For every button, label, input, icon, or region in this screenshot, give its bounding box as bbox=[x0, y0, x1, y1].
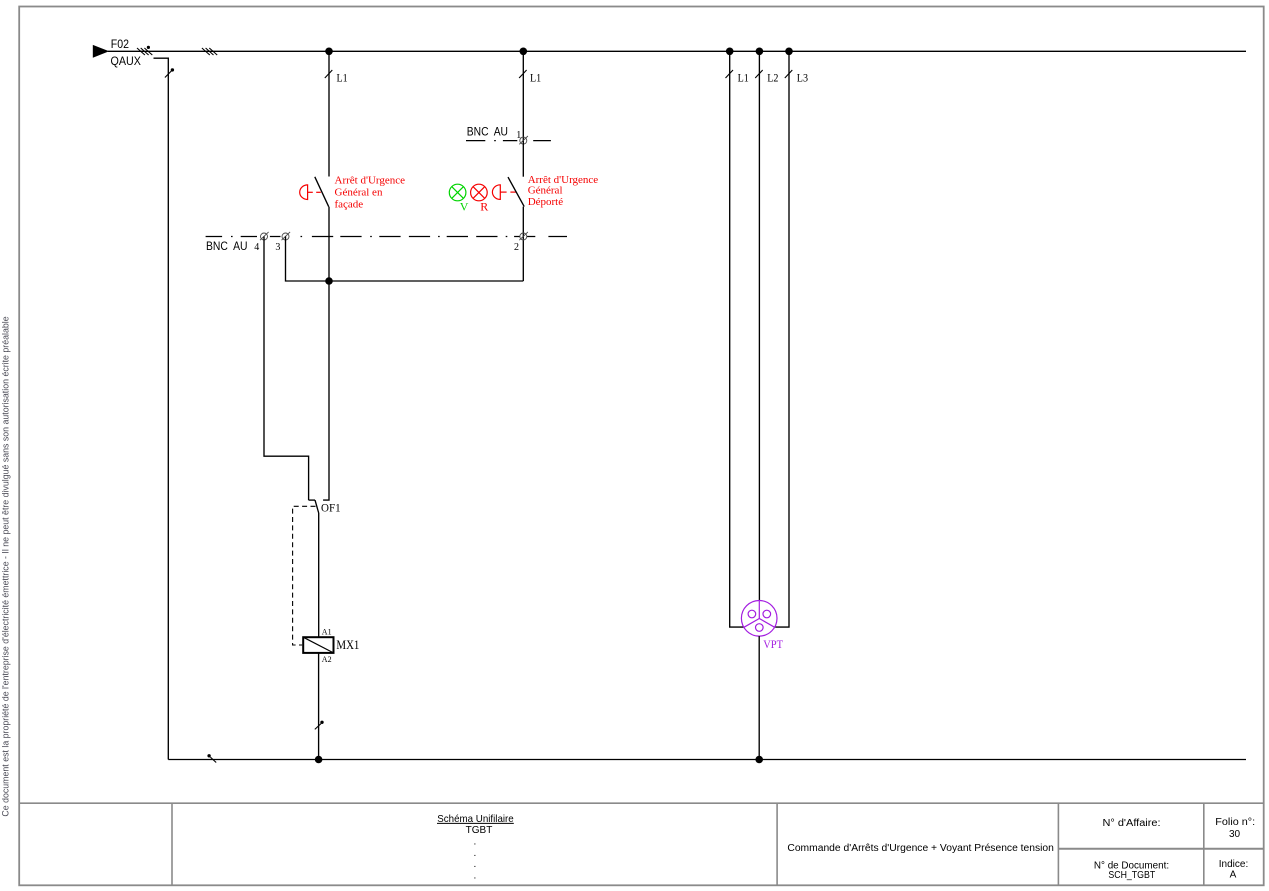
wire: top bus bbox=[108, 50, 1246, 52]
svg-text:TGBT: TGBT bbox=[466, 825, 493, 836]
wire: pin3 down to link junction bbox=[286, 237, 524, 282]
svg-text:L3: L3 bbox=[797, 71, 808, 85]
svg-text:Commande d'Arrêts d'Urgence +: Commande d'Arrêts d'Urgence + Voyant Pré… bbox=[787, 843, 1054, 854]
feeder arrow F02/QAUX bbox=[93, 45, 109, 58]
wire: pin4 down to OF1 left terminal bbox=[264, 237, 309, 501]
switch: Arret d'Urgence facade (blade) bbox=[315, 177, 329, 207]
svg-text:L1: L1 bbox=[530, 71, 541, 85]
phase mark branch1 bbox=[325, 70, 333, 78]
wire: L3 drop to VPT bbox=[775, 51, 789, 627]
svg-text:A1: A1 bbox=[322, 627, 332, 636]
wire: branch1 vertical upper bbox=[328, 51, 330, 176]
node: bus / branch2 junction bbox=[520, 48, 528, 56]
svg-text:.: . bbox=[474, 837, 477, 848]
svg-text:L1: L1 bbox=[337, 71, 348, 85]
wire: L1 drop to VPT bbox=[730, 51, 744, 627]
wire: branch2 vertical lower bbox=[522, 207, 524, 281]
voltage presence indicator VPT bbox=[741, 601, 777, 637]
node: bus / L1 junction bbox=[726, 48, 734, 56]
svg-text:3: 3 bbox=[275, 242, 280, 253]
lamp V (green) bbox=[449, 184, 466, 201]
coil MX1 box bbox=[303, 637, 333, 653]
mushroom head button symbol (deporte) bbox=[492, 185, 516, 200]
svg-text:Ce document est la propriété d: Ce document est la propriété de l'entrep… bbox=[1, 316, 11, 816]
terminal BNC AU pin 1 bbox=[519, 136, 528, 144]
phase mark branch2 bbox=[519, 70, 527, 78]
svg-text:4: 4 bbox=[254, 242, 259, 253]
svg-text:Indice:: Indice: bbox=[1219, 859, 1248, 870]
3-phase slash mark group 1 with dot bbox=[137, 48, 152, 55]
dash-dot link line BNC AU lower bbox=[206, 236, 567, 238]
switch: Arret d'Urgence deporte (blade) bbox=[508, 177, 524, 207]
svg-text:VPT: VPT bbox=[763, 637, 783, 651]
svg-text:2: 2 bbox=[514, 242, 519, 253]
mushroom head button symbol (facade) bbox=[300, 185, 321, 200]
label: Arret d'Urgence General en facade bbox=[335, 174, 406, 210]
3-phase slash mark group 2 bbox=[202, 48, 217, 55]
svg-text:BNC AU: BNC AU bbox=[206, 241, 248, 253]
phase mark L2 bbox=[755, 70, 763, 78]
break symbol on bottom bus bbox=[210, 757, 216, 762]
phase mark L1 bbox=[726, 70, 734, 78]
wire: branch1 vertical lower to OF1 right terminal bbox=[323, 281, 329, 500]
wire: L2 drop to VPT bbox=[758, 51, 760, 600]
contact OF1 bbox=[309, 500, 319, 637]
title block bbox=[19, 803, 1263, 885]
svg-text:Arrêt d'Urgence: Arrêt d'Urgence bbox=[335, 174, 406, 186]
wire: branch2 vertical upper bbox=[522, 51, 524, 140]
svg-text:A: A bbox=[1230, 870, 1237, 881]
node: bus / L3 junction bbox=[785, 48, 793, 56]
dash-dot link line BNC AU upper bbox=[466, 140, 551, 142]
svg-text:Déporté: Déporté bbox=[528, 196, 564, 208]
terminal BNC AU pin 3 bbox=[282, 232, 291, 240]
svg-text:V: V bbox=[460, 199, 469, 213]
svg-text:30: 30 bbox=[1229, 829, 1241, 840]
svg-text:L1: L1 bbox=[738, 71, 749, 85]
break symbol above bottom bus bbox=[315, 724, 321, 730]
svg-text:MX1: MX1 bbox=[336, 638, 359, 652]
node: bus / L2 junction bbox=[756, 48, 764, 56]
node: bus / branch1 junction bbox=[325, 48, 333, 56]
svg-text:BNC AU: BNC AU bbox=[467, 127, 508, 139]
svg-text:QAUX: QAUX bbox=[111, 54, 141, 68]
svg-text:F02: F02 bbox=[111, 37, 129, 51]
node: VPT / bottom bus junction bbox=[755, 756, 763, 764]
mechanical link dashed OF1 to MX1 bbox=[293, 506, 316, 645]
svg-text:A2: A2 bbox=[322, 655, 332, 664]
svg-text:.: . bbox=[474, 859, 477, 870]
svg-text:façade: façade bbox=[335, 199, 364, 211]
node: branch1 / branch2 link junction bbox=[325, 277, 333, 285]
wire: bottom bus bbox=[168, 759, 1246, 761]
phase mark L3 bbox=[785, 70, 793, 78]
svg-text:Général en: Général en bbox=[335, 186, 383, 198]
terminal BNC AU pin 4 bbox=[260, 232, 269, 240]
break symbol on QAUX drop bbox=[165, 70, 172, 77]
svg-text:N° d'Affaire:: N° d'Affaire: bbox=[1103, 818, 1161, 829]
lamp R (red) bbox=[471, 184, 488, 201]
terminal BNC AU pin 2 bbox=[519, 232, 528, 240]
svg-text:OF1: OF1 bbox=[321, 501, 341, 515]
wire: MX1 to bottom bus bbox=[318, 653, 320, 760]
svg-text:SCH_TGBT: SCH_TGBT bbox=[1108, 870, 1155, 881]
wire: VPT to bottom bus bbox=[758, 636, 760, 759]
label: Arret d'Urgence General Deporte bbox=[528, 174, 599, 208]
svg-text:Folio n°:: Folio n°: bbox=[1215, 817, 1255, 828]
wire: branch1 vertical middle bbox=[328, 207, 330, 281]
svg-text:L2: L2 bbox=[767, 71, 778, 85]
wire: QAUX drop bbox=[154, 58, 169, 759]
svg-text:R: R bbox=[480, 199, 488, 213]
svg-text:.: . bbox=[474, 870, 477, 881]
node: MX1 / bottom bus junction bbox=[315, 756, 323, 764]
svg-text:.: . bbox=[474, 848, 477, 859]
wire: branch2 pin1 to switch bbox=[522, 141, 524, 177]
